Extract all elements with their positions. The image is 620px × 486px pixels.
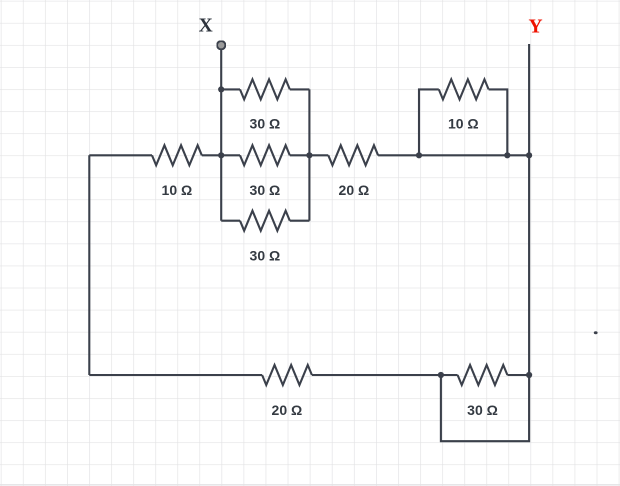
- svg-text:X: X: [199, 16, 213, 37]
- terminal X circle: [217, 41, 225, 49]
- resistor R8 30Ω bottom right: [458, 365, 508, 385]
- wire node to 20Ω: [309, 154, 328, 156]
- svg-text:30 Ω: 30 Ω: [250, 116, 281, 132]
- wire right rail of parallel block: [308, 89, 310, 220]
- wire 10Ω to node: [202, 154, 221, 156]
- svg-text:20 Ω: 20 Ω: [339, 182, 370, 198]
- resistor R2 30Ω middle branch: [240, 145, 290, 165]
- wire X stem / left rail of parallel block: [220, 49, 222, 220]
- wire bottom branch right lead: [290, 220, 310, 222]
- node junction dot right rail middle: [306, 152, 312, 158]
- wire middle branch right lead: [290, 154, 310, 156]
- wire middle branch left lead: [221, 154, 240, 156]
- stray mark: [594, 331, 598, 334]
- svg-text:30 Ω: 30 Ω: [250, 182, 281, 198]
- resistor R7 20Ω bottom: [262, 365, 312, 385]
- resistor R5 20Ω middle: [328, 145, 378, 165]
- wire main horizontal left segment: [89, 154, 152, 156]
- wire bottom branch left lead: [221, 220, 240, 222]
- wire left outer rail: [88, 155, 90, 375]
- node junction dot main-Y: [526, 152, 532, 158]
- wire top-right loop right leg: [489, 89, 508, 155]
- wire 20Ω to Y rail: [378, 154, 529, 156]
- wire 20Ω to bottom node: [312, 374, 458, 376]
- node junction dot loop left: [416, 152, 422, 158]
- svg-text:30 Ω: 30 Ω: [467, 402, 498, 418]
- svg-text:10 Ω: 10 Ω: [162, 182, 193, 198]
- resistor R3 30Ω bottom branch: [240, 211, 290, 231]
- wire top-right loop left leg: [419, 89, 439, 155]
- svg-text:30 Ω: 30 Ω: [250, 248, 281, 264]
- wire 30Ω to Y rail bottom: [507, 374, 529, 376]
- resistor R1 30Ω top branch: [240, 79, 290, 99]
- wire bottom-right loop: [441, 375, 529, 441]
- wire Y rail: [528, 44, 530, 375]
- node junction dot left rail top: [218, 86, 224, 92]
- node junction dot bottom-Y: [526, 372, 532, 378]
- node junction dot left rail middle: [218, 152, 224, 158]
- wire top branch left lead: [221, 88, 240, 90]
- node junction dot bottom loop left: [438, 372, 444, 378]
- svg-text:20 Ω: 20 Ω: [272, 402, 303, 418]
- node junction dot loop right: [504, 152, 510, 158]
- resistor R4 10Ω left: [152, 145, 202, 165]
- svg-text:Y: Y: [528, 16, 542, 37]
- wire top branch right lead: [290, 88, 310, 90]
- svg-text:10 Ω: 10 Ω: [448, 116, 479, 132]
- wire bottom left segment: [89, 374, 262, 376]
- resistor R6 10Ω top right: [439, 79, 489, 99]
